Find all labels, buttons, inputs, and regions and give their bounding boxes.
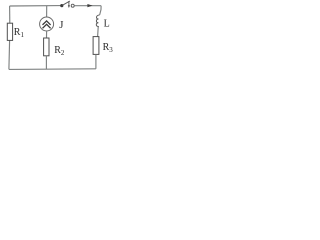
wire top rail right segment: [74, 5, 101, 7]
wire R2 to bottom: [45, 56, 47, 69]
chevron upper: [43, 21, 51, 25]
wire top rail left segment: [10, 5, 61, 7]
wire coil to R3: [97, 27, 100, 37]
wire circle to R2: [46, 31, 48, 38]
inductor L coil: [96, 15, 99, 27]
resistor R3: [93, 37, 99, 55]
wire left rail lower: [8, 40, 11, 69]
wire right top corner down to coil: [100, 6, 101, 15]
wire bottom rail: [9, 68, 96, 71]
svg-text:L: L: [104, 19, 110, 30]
wire middle branch stub: [46, 6, 48, 17]
chevron lower: [43, 24, 51, 28]
switch closing arrow: [68, 1, 70, 5]
current source circle J: [40, 17, 54, 31]
switch terminal circle: [71, 4, 74, 7]
wire left rail: [9, 6, 11, 23]
resistor R1: [7, 23, 12, 40]
resistor R2: [44, 38, 49, 56]
wire R3 to bottom rail: [95, 54, 97, 68]
switch blade: [63, 1, 70, 5]
switch arrowhead: [68, 5, 70, 8]
current direction arrow: [87, 4, 92, 7]
junction dot: [60, 4, 63, 7]
svg-text:J: J: [59, 19, 63, 31]
